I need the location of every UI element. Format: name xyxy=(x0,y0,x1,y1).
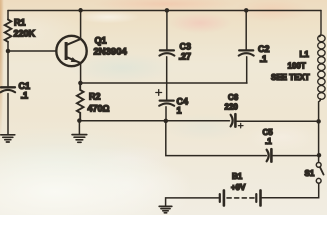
svg-text:C5: C5 xyxy=(263,128,274,137)
svg-text:L1: L1 xyxy=(300,50,310,59)
node C6 right junction xyxy=(316,119,321,124)
wire collector xyxy=(80,11,82,39)
wire C2 to emitter bus xyxy=(246,57,248,83)
wire C5 branch drop xyxy=(166,121,266,156)
svg-text:2N3904: 2N3904 xyxy=(94,47,128,58)
node emitter junction xyxy=(78,81,83,86)
svg-text:C2: C2 xyxy=(258,44,270,54)
wire ground rail to C6 xyxy=(79,120,229,122)
svg-text:.1: .1 xyxy=(260,54,268,64)
svg-text:.27: .27 xyxy=(179,52,192,62)
capacitor C3 xyxy=(159,50,174,55)
svg-text:Q1: Q1 xyxy=(95,36,107,46)
node C2 top junction xyxy=(244,8,249,13)
capacitor C3 branch wire xyxy=(166,11,168,51)
wire S1 to bottom bus xyxy=(262,183,319,197)
svg-text:S1: S1 xyxy=(305,169,315,178)
wire battery to ground xyxy=(166,198,219,206)
wire top bus xyxy=(8,10,321,12)
capacitor C4 xyxy=(159,101,174,106)
svg-text:+9V: +9V xyxy=(231,183,246,192)
resistor R2 xyxy=(77,83,84,120)
wire C3 to C4 xyxy=(166,57,168,100)
svg-text:C3: C3 xyxy=(180,42,192,52)
node C4 bottom junction xyxy=(164,119,169,124)
inductor L1 xyxy=(318,35,325,99)
label C6 plus sign xyxy=(238,123,243,128)
svg-text:R2: R2 xyxy=(89,92,101,102)
wire emitter xyxy=(80,63,82,83)
capacitor C2 xyxy=(239,50,254,55)
wire C4 to ground rail xyxy=(165,107,167,121)
svg-text:.1: .1 xyxy=(265,137,272,146)
svg-text:.1: .1 xyxy=(21,90,29,100)
wire R2 ground stub xyxy=(78,121,80,134)
node C5 right junction xyxy=(317,153,322,158)
ground R2 xyxy=(72,135,87,143)
wire left rail middle xyxy=(7,42,9,87)
ground battery xyxy=(159,206,172,212)
node R2 bottom junction xyxy=(77,118,82,123)
inductor L1 lead top xyxy=(320,11,321,37)
svg-text:C6: C6 xyxy=(228,93,239,102)
wire C5 to right rail xyxy=(272,155,319,157)
svg-text:R1: R1 xyxy=(14,18,26,28)
capacitor C5 xyxy=(267,149,272,161)
battery B1 xyxy=(220,190,261,205)
wire left rail upper xyxy=(7,11,9,20)
resistor R1 xyxy=(5,20,12,42)
capacitor C2 branch wire xyxy=(245,11,247,51)
transistor Q1 xyxy=(56,36,86,66)
capacitor C1 xyxy=(1,87,16,92)
svg-text:SEE TEXT: SEE TEXT xyxy=(271,73,310,82)
node C3 top junction xyxy=(165,8,170,13)
label C4 plus sign xyxy=(156,90,162,96)
svg-text:220K: 220K xyxy=(14,29,36,39)
switch S1 xyxy=(316,163,323,184)
inductor L1 lead bottom / right rail xyxy=(319,99,321,162)
ground left xyxy=(1,135,15,142)
svg-text:1: 1 xyxy=(177,106,182,116)
svg-text:220: 220 xyxy=(225,103,239,112)
node collector junction xyxy=(78,8,83,13)
wire left rail lower xyxy=(7,94,9,135)
svg-text:B1: B1 xyxy=(232,172,243,181)
wire C6 to right rail xyxy=(237,120,319,122)
capacitor C6 xyxy=(231,114,236,126)
svg-text:470Ω: 470Ω xyxy=(88,104,110,114)
wire base lead xyxy=(8,50,57,52)
svg-text:100T: 100T xyxy=(288,62,306,71)
wire emitter bus xyxy=(80,82,247,84)
node base junction xyxy=(6,49,11,54)
